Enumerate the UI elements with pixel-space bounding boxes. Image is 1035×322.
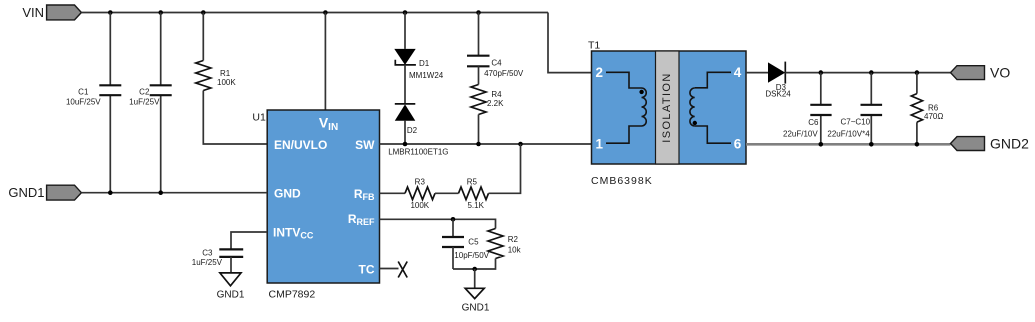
wire RFB to R3 bbox=[380, 192, 406, 194]
wire VIN pin drop bbox=[324, 13, 326, 111]
wire TC no-connect bbox=[380, 268, 399, 270]
secondary winding bottom wire bbox=[695, 126, 731, 143]
svg-text:DSK24: DSK24 bbox=[765, 90, 791, 99]
terminal VO bbox=[951, 66, 985, 80]
wire VIN rail bbox=[81, 12, 548, 14]
svg-text:1: 1 bbox=[596, 136, 604, 151]
ground GND1 under C3 bbox=[220, 273, 241, 286]
wire VO rail bbox=[785, 72, 950, 74]
svg-text:GND1: GND1 bbox=[217, 290, 245, 301]
secondary winding coil bbox=[690, 88, 695, 126]
node junction C6 top bbox=[819, 70, 824, 75]
svg-text:4: 4 bbox=[734, 65, 742, 80]
svg-text:D2: D2 bbox=[407, 126, 418, 135]
svg-text:CMB6398K: CMB6398K bbox=[591, 175, 653, 187]
svg-text:R3: R3 bbox=[415, 177, 426, 186]
svg-text:5.1K: 5.1K bbox=[467, 201, 484, 210]
node junction R1 top bbox=[201, 10, 206, 15]
wire C4 top lead bbox=[478, 13, 480, 56]
node junction C7 top bbox=[869, 70, 874, 75]
node junction C1 bottom bbox=[108, 190, 113, 195]
svg-text:MM1W24: MM1W24 bbox=[409, 71, 444, 80]
svg-text:1uF/25V: 1uF/25V bbox=[129, 97, 160, 106]
wire GND1 rail bbox=[81, 192, 267, 194]
node junction C1 top bbox=[108, 10, 113, 15]
wire C3 bottom lead bbox=[230, 257, 232, 273]
resistor R2 bbox=[488, 229, 503, 259]
wire D1-D2 bbox=[404, 65, 406, 104]
svg-text:6: 6 bbox=[734, 136, 742, 151]
no-connect X at TC bbox=[398, 262, 407, 278]
wire C2 leads bbox=[160, 13, 162, 193]
node junction GND stem bbox=[472, 267, 477, 272]
svg-text:2: 2 bbox=[596, 65, 604, 80]
wire R2 bottom + C5 bottom joining bbox=[453, 259, 496, 270]
resistor R3 bbox=[405, 187, 435, 200]
svg-text:22uF/10V*4: 22uF/10V*4 bbox=[827, 130, 870, 139]
terminal GND1 bbox=[47, 185, 82, 200]
node junction R6 bottom bbox=[915, 142, 920, 147]
diode D3 DSK24 bbox=[768, 62, 785, 82]
node junction D2-SW bbox=[403, 142, 408, 147]
resistor R6 bbox=[916, 73, 918, 145]
node junction R5 riser-SW bbox=[518, 142, 523, 147]
primary polarity dot bbox=[639, 90, 643, 94]
svg-text:C3: C3 bbox=[202, 248, 213, 257]
svg-text:GND1: GND1 bbox=[8, 185, 44, 200]
wire R4 bottom lead bbox=[478, 115, 480, 145]
terminal GND2 bbox=[951, 137, 985, 151]
svg-text:R4: R4 bbox=[491, 90, 502, 99]
svg-text:GND1: GND1 bbox=[462, 303, 490, 314]
svg-text:CMP7892: CMP7892 bbox=[269, 289, 316, 301]
svg-text:GND2: GND2 bbox=[990, 136, 1029, 152]
op-amp U1 CMP7892 body bbox=[267, 110, 379, 283]
diode D2 LMBR1100ET1G bbox=[395, 103, 416, 105]
wire GND stem bbox=[474, 269, 476, 288]
secondary winding wire bbox=[695, 72, 731, 88]
svg-text:100K: 100K bbox=[410, 201, 429, 210]
svg-text:SW: SW bbox=[355, 138, 375, 152]
capacitor C3 bbox=[219, 249, 243, 257]
node junction C4 top bbox=[476, 10, 481, 15]
svg-text:22uF/10V: 22uF/10V bbox=[783, 130, 818, 139]
svg-text:100K: 100K bbox=[217, 78, 236, 87]
svg-text:C1: C1 bbox=[78, 87, 89, 96]
capacitor C1 bbox=[99, 85, 121, 95]
svg-text:R5: R5 bbox=[467, 177, 478, 186]
svg-text:EN/UVLO: EN/UVLO bbox=[274, 138, 327, 152]
svg-text:C5: C5 bbox=[468, 237, 479, 246]
svg-text:D1: D1 bbox=[419, 59, 430, 68]
svg-text:T1: T1 bbox=[588, 40, 600, 52]
wire VIN rail drop to T1 pin2 bbox=[548, 13, 592, 73]
capacitor C6 bbox=[820, 73, 822, 145]
svg-text:1uF/25V: 1uF/25V bbox=[192, 258, 223, 267]
ground GND1 under C5/R2 bbox=[465, 288, 484, 298]
wire INTVCC to C3 bbox=[231, 232, 267, 249]
capacitor C2 bbox=[150, 85, 172, 95]
capacitor C4 bbox=[467, 56, 490, 67]
terminal VIN bbox=[47, 5, 82, 20]
capacitor C7~C10 bbox=[870, 73, 872, 145]
primary winding coil bbox=[642, 88, 647, 126]
svg-text:U1: U1 bbox=[252, 112, 266, 124]
diode D1 MM1W24 zener bbox=[404, 13, 406, 49]
svg-text:10k: 10k bbox=[508, 245, 522, 254]
svg-text:10pF/50V: 10pF/50V bbox=[454, 251, 489, 260]
node junction C2 top bbox=[158, 10, 163, 15]
node junction VIN pin bbox=[323, 10, 328, 15]
wire R3-R5 bbox=[435, 192, 459, 194]
svg-text:R6: R6 bbox=[928, 103, 939, 112]
wire C1 leads bbox=[109, 13, 111, 193]
wire T1 pin4 to D3 bbox=[746, 72, 768, 74]
svg-text:R2: R2 bbox=[508, 235, 519, 244]
node junction C5 top bbox=[451, 217, 456, 222]
resistor R5 bbox=[459, 187, 489, 200]
primary winding wire bbox=[606, 72, 642, 88]
capacitor C5 bbox=[452, 219, 454, 237]
resistor R1 bbox=[196, 61, 211, 91]
svg-text:C6: C6 bbox=[808, 118, 819, 127]
svg-text:ISOLATION: ISOLATION bbox=[661, 72, 673, 142]
svg-text:R1: R1 bbox=[220, 69, 231, 78]
isolation barrier bbox=[656, 51, 680, 164]
node junction C2 bottom bbox=[158, 190, 163, 195]
node junction R6 top bbox=[915, 70, 920, 75]
svg-text:VIN: VIN bbox=[22, 5, 44, 20]
wire GND2 rail (gray) bbox=[746, 143, 951, 146]
svg-text:10uF/25V: 10uF/25V bbox=[66, 97, 101, 106]
svg-text:TC: TC bbox=[359, 262, 375, 276]
transformer T1 body bbox=[592, 51, 747, 164]
svg-text:C7~C10: C7~C10 bbox=[841, 118, 871, 127]
svg-text:C4: C4 bbox=[491, 58, 502, 67]
svg-text:470Ω: 470Ω bbox=[924, 112, 943, 121]
svg-text:GND: GND bbox=[274, 187, 301, 201]
node junction D1 top bbox=[403, 10, 408, 15]
wire SW rail to T1 pin1 bbox=[380, 143, 592, 145]
wire R1 leads bbox=[203, 13, 267, 145]
wire R5 riser to SW bbox=[489, 144, 521, 193]
wire C4-R4 bbox=[478, 66, 480, 84]
primary winding bottom wire bbox=[606, 126, 642, 143]
secondary polarity dot bbox=[693, 121, 697, 125]
node junction C6 bottom bbox=[819, 142, 824, 147]
svg-text:2.2K: 2.2K bbox=[487, 99, 504, 108]
svg-text:470pF/50V: 470pF/50V bbox=[484, 69, 524, 78]
svg-text:C2: C2 bbox=[139, 87, 150, 96]
node junction C7 bottom bbox=[869, 142, 874, 147]
wire RREF net bbox=[380, 219, 496, 228]
resistor R4 bbox=[471, 85, 486, 115]
node junction R4-SW bbox=[476, 142, 481, 147]
svg-text:VO: VO bbox=[990, 65, 1010, 81]
svg-text:LMBR1100ET1G: LMBR1100ET1G bbox=[388, 148, 448, 157]
